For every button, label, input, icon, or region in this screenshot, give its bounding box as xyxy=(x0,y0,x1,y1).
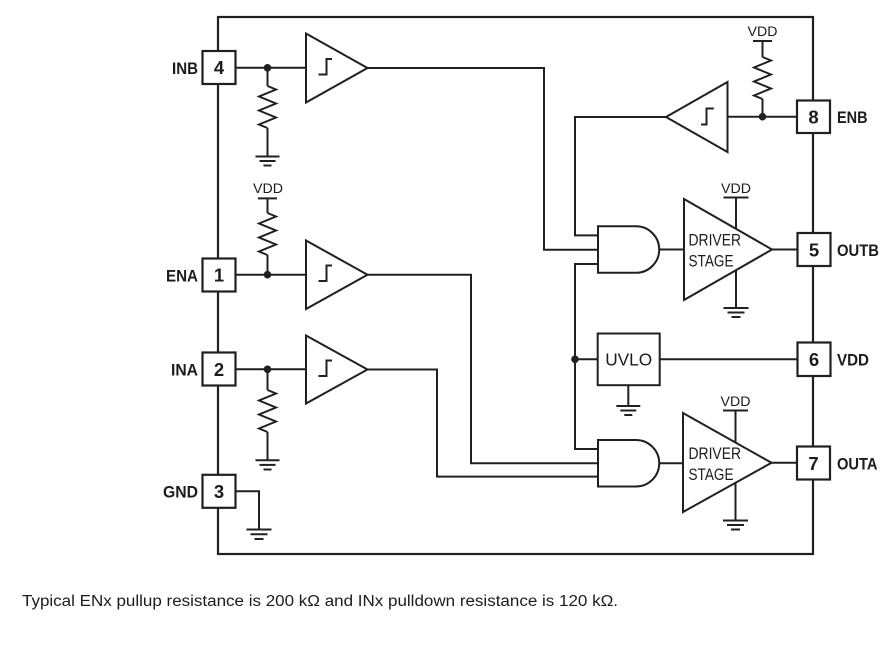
wire UVLO output to node xyxy=(575,358,598,360)
wire AND A output to driver A xyxy=(659,462,683,464)
resistor ENB pullup xyxy=(754,41,771,117)
svg-text:VDD: VDD xyxy=(721,393,751,409)
svg-text:INB: INB xyxy=(172,60,198,78)
ground INB pulldown xyxy=(256,157,280,166)
wire INA schmitt output to AND A bottom input xyxy=(368,370,599,477)
svg-text:ENB: ENB xyxy=(837,109,868,127)
pin box 5 xyxy=(798,233,831,266)
svg-text:STAGE: STAGE xyxy=(689,253,734,271)
schmitt buffer INB xyxy=(306,34,368,103)
resistor INB pulldown xyxy=(259,68,276,157)
VDD symbol ENB pullup xyxy=(748,23,778,41)
VDD symbol driver B xyxy=(721,180,751,229)
node dot INA xyxy=(264,366,272,374)
wire UVLO net: AND B bottom input to AND A top input xyxy=(575,264,598,449)
svg-text:INA: INA xyxy=(171,361,198,379)
VDD symbol ENA pullup xyxy=(253,180,283,198)
svg-text:OUTA: OUTA xyxy=(837,455,878,473)
svg-text:6: 6 xyxy=(809,349,819,370)
svg-text:DRIVER: DRIVER xyxy=(689,232,742,250)
wire UVLO to VDD pin 6 xyxy=(660,358,798,360)
svg-text:STAGE: STAGE xyxy=(689,466,734,484)
svg-text:3: 3 xyxy=(214,481,224,502)
svg-text:ENA: ENA xyxy=(166,267,198,285)
driver stage B xyxy=(684,199,772,300)
pin box 2 xyxy=(203,353,236,386)
wire INB schmitt output to AND B middle input xyxy=(368,68,599,250)
svg-text:UVLO: UVLO xyxy=(605,350,652,370)
svg-text:7: 7 xyxy=(808,453,818,474)
wire INA pin to schmitt input xyxy=(236,368,307,370)
svg-text:4: 4 xyxy=(214,57,225,78)
svg-text:VDD: VDD xyxy=(837,352,869,370)
svg-text:5: 5 xyxy=(809,239,819,260)
ground INA pulldown xyxy=(256,460,280,469)
node dot ENB xyxy=(759,113,767,121)
resistor ENA pullup xyxy=(259,198,276,274)
pin box 8 xyxy=(797,101,830,134)
pin box 1 xyxy=(203,259,236,292)
resistor INA pulldown xyxy=(259,369,276,460)
node dot UVLO xyxy=(571,356,579,364)
svg-text:Typical ENx pullup resistance: Typical ENx pullup resistance is 200 kΩ … xyxy=(22,593,618,610)
node dot ENA xyxy=(264,271,272,279)
node dot INB xyxy=(264,64,272,72)
wire ENB schmitt output to AND B top input xyxy=(575,117,666,235)
VDD symbol driver A xyxy=(721,393,751,443)
svg-text:2: 2 xyxy=(214,359,224,380)
schmitt buffer ENA xyxy=(306,241,368,310)
wire ENA pin to schmitt input xyxy=(236,274,307,276)
svg-text:VDD: VDD xyxy=(721,180,751,196)
IC outer boundary box xyxy=(218,17,813,554)
AND gate A xyxy=(598,440,659,487)
AND gate B xyxy=(598,226,659,272)
wire ENA schmitt output to AND A middle input xyxy=(368,275,599,464)
wire AND B output to driver B xyxy=(659,249,684,251)
svg-text:VDD: VDD xyxy=(748,23,778,39)
UVLO block xyxy=(598,334,660,386)
wire driver A output to OUTA pin 7 xyxy=(772,462,798,464)
ground driver B xyxy=(724,271,749,318)
driver stage A xyxy=(683,413,772,512)
wire driver B output to OUTB pin 5 xyxy=(772,249,798,251)
wire GND pin stub to ground xyxy=(236,491,260,529)
pin box 7 xyxy=(797,447,830,480)
wire ENB pin to schmitt base xyxy=(728,116,798,118)
svg-text:OUTB: OUTB xyxy=(837,242,879,260)
wire INB pin to schmitt input xyxy=(236,67,307,69)
schmitt buffer INA xyxy=(306,336,368,404)
svg-text:1: 1 xyxy=(214,265,224,286)
svg-text:8: 8 xyxy=(808,107,818,128)
pin box 6 xyxy=(798,343,831,377)
svg-text:DRIVER: DRIVER xyxy=(689,445,742,463)
svg-text:VDD: VDD xyxy=(253,180,283,196)
pin box 4 xyxy=(203,51,236,84)
ground driver A xyxy=(723,483,748,530)
svg-text:GND: GND xyxy=(163,484,198,502)
ground UVLO xyxy=(616,385,640,415)
schmitt buffer ENB (left-pointing) xyxy=(666,82,728,152)
ground GND pin xyxy=(247,530,272,540)
pin box 3 xyxy=(203,475,236,508)
